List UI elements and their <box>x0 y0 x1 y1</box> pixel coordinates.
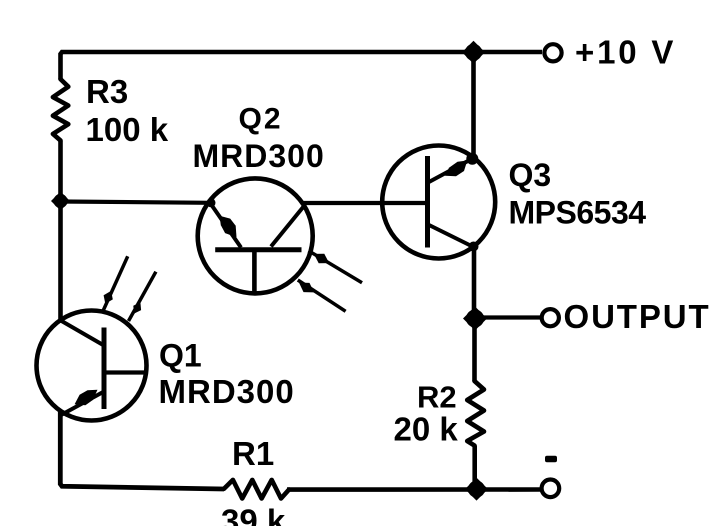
wire Q2 collector to Q3 base <box>302 201 428 205</box>
resistor R1 <box>224 480 289 499</box>
junction dot bottom rail <box>468 481 485 498</box>
terminal +10 V <box>544 44 561 61</box>
svg-text:OUTPUT: OUTPUT <box>564 298 711 335</box>
wire output node to R2 <box>472 319 477 382</box>
svg-text:Q3: Q3 <box>509 157 552 193</box>
transistor Q3 <box>382 146 495 259</box>
resistor R2 <box>467 381 484 446</box>
svg-text:+10 V: +10 V <box>575 34 676 71</box>
wire bottom rail right <box>287 487 541 492</box>
wire left vertical (R3 to Q1) <box>58 141 63 321</box>
phototransistor Q2 <box>198 178 313 293</box>
light arrows into Q2 <box>298 251 362 312</box>
svg-text:R3: R3 <box>86 73 128 110</box>
svg-text:MPS6534: MPS6534 <box>509 195 647 231</box>
svg-text:MRD300: MRD300 <box>159 373 295 410</box>
node A junction dot <box>54 194 68 208</box>
svg-text:R2: R2 <box>417 380 457 415</box>
junction dot top rail <box>465 44 482 61</box>
wire R2 to bottom rail <box>472 446 477 490</box>
svg-text:R1: R1 <box>232 435 274 472</box>
terminal OUTPUT <box>542 309 559 326</box>
svg-text:100 k: 100 k <box>86 111 169 148</box>
node OUTPUT junction dot <box>466 310 484 328</box>
terminal negative <box>542 480 560 498</box>
svg-text:20 k: 20 k <box>394 411 459 448</box>
minus label <box>545 456 557 462</box>
wire +10V rail down to Q3 emitter <box>471 52 476 158</box>
wire Q3 collector down to output node <box>472 247 477 319</box>
phototransistor Q1 <box>37 311 147 421</box>
resistor R3 <box>53 79 68 140</box>
svg-text:Q1: Q1 <box>159 338 202 374</box>
wire top rail <box>61 52 543 79</box>
wire node A to Q2 base-emitter junction <box>61 202 211 203</box>
svg-text:39 k: 39 k <box>221 503 286 526</box>
light arrows into Q1 <box>103 256 156 321</box>
svg-text:MRD300: MRD300 <box>193 138 325 174</box>
svg-text:Q2: Q2 <box>239 103 283 136</box>
wire Q1 emitter down to bottom rail <box>60 411 224 489</box>
wire to output terminal <box>480 315 540 319</box>
